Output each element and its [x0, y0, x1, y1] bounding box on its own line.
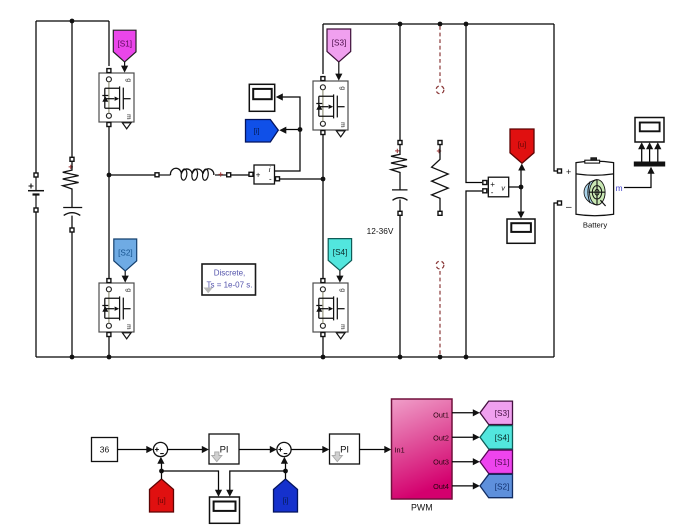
wire PWM Out3 to goto S1: [452, 461, 474, 463]
node junction bottom rail Q4: [321, 355, 326, 360]
sum block Sum1: [153, 442, 167, 456]
goto tag S3: [327, 29, 351, 81]
node junction i feedback: [283, 469, 288, 474]
DC voltage source V1: [28, 173, 44, 212]
wire bus riser 2: [649, 149, 651, 162]
PI controller PI1: [209, 434, 239, 464]
constant block 36: [92, 438, 118, 462]
resistor R load (disconnected): [432, 141, 449, 216]
wire PWM Out1 to goto S3: [452, 412, 474, 414]
svg-text:Out4: Out4: [433, 482, 449, 491]
wire dashed unconnected top: [436, 26, 444, 94]
svg-text:PI: PI: [340, 444, 349, 455]
wire Q3 source to Q4 drain: [322, 135, 324, 279]
node junction right bridge midpoint: [321, 177, 326, 182]
wire left rail down to DC source +: [35, 21, 37, 173]
wire from-i to sum2: [285, 464, 287, 480]
wire RC branch top: [71, 21, 73, 157]
current measurement I1: [249, 165, 280, 184]
node junction rail R load dashed: [438, 22, 443, 27]
wire battery minus to bottom rail: [554, 203, 557, 357]
arrow into goto i: [279, 127, 286, 134]
scope Scope2 (output voltage): [507, 219, 535, 243]
arrow into goto u: [518, 164, 525, 171]
wire bus riser 1: [641, 149, 643, 162]
node junction bottom rail RC: [70, 355, 75, 360]
wire i feedback to scope4: [230, 471, 286, 491]
node junction v signal: [519, 185, 524, 190]
wire bridge midpoint to inductor: [109, 174, 155, 176]
wire current sensor minus to right bridge: [280, 178, 323, 180]
svg-text:–: –: [566, 202, 572, 213]
wire 36 to sum1: [118, 449, 148, 451]
wire battery m output signal: [624, 174, 651, 188]
series RC branch RC2: [391, 141, 408, 216]
wire voltmeter output signal: [509, 170, 521, 213]
scope Scope4 (control signals): [210, 497, 240, 523]
goto tag S1 bottom: [480, 450, 513, 473]
wire dashed unconnected bottom: [436, 261, 444, 355]
svg-text:Out2: Out2: [433, 434, 449, 443]
svg-text:+: +: [566, 167, 571, 177]
wire bottom rail: [36, 356, 554, 358]
svg-text:PWM: PWM: [411, 503, 433, 513]
bus selector bar: [634, 162, 665, 167]
scope Scope3 (battery signals): [635, 118, 664, 143]
MOSFET Q1: [99, 69, 134, 129]
arrow into bus selector: [647, 167, 654, 174]
wire current sensor output signal: [275, 97, 301, 171]
PI controller PI2: [330, 434, 360, 464]
wire Q2 source to bottom rail: [108, 337, 110, 357]
goto tag S4 bottom: [480, 426, 513, 449]
wire PI1 to sum2: [239, 449, 271, 451]
node junction bottom rail RC2: [398, 355, 403, 360]
svg-text:[S3]: [S3]: [332, 38, 347, 47]
goto tag S3 bottom: [480, 401, 513, 424]
MOSFET Q4: [313, 279, 348, 339]
svg-text:[i]: [i]: [254, 127, 260, 136]
wire sum2 to PI2: [291, 449, 323, 451]
svg-text:12-36V: 12-36V: [367, 226, 394, 236]
from tag i: [274, 479, 298, 512]
wire RC2 branch to bottom rail: [399, 216, 401, 357]
svg-text:In1: In1: [395, 445, 405, 454]
wire rail to RC2 branch: [399, 24, 401, 140]
subsystem PWM: [392, 399, 453, 513]
svg-text:[u]: [u]: [518, 140, 526, 149]
node junction bottom rail dashed: [438, 355, 443, 360]
svg-text:[u]: [u]: [157, 496, 165, 505]
wire inductor to current sensor: [231, 174, 249, 176]
goto tag S2: [114, 239, 137, 283]
wire u feedback to scope4: [162, 471, 219, 491]
goto tag u: [510, 129, 534, 163]
wire from-u to sum1: [161, 464, 163, 480]
node junction rail voltmeter tap: [464, 22, 469, 27]
resistor-capacitor snubber branch RC1: [63, 157, 83, 232]
wire top-right rail: [323, 23, 554, 25]
svg-text:[S2]: [S2]: [495, 482, 510, 491]
arrow into scope2: [517, 212, 524, 219]
svg-text:Ts = 1e-07 s.: Ts = 1e-07 s.: [206, 281, 252, 290]
arrow into scope1: [276, 93, 283, 100]
from tag u: [150, 479, 174, 512]
goto tag i: [246, 120, 279, 143]
svg-text:[i]: [i]: [283, 496, 289, 505]
arrows into scope3: [638, 142, 645, 149]
wire PI2 to PWM: [360, 449, 386, 451]
svg-text:[S1]: [S1]: [118, 40, 133, 49]
svg-text:+: +: [256, 170, 261, 179]
node junction bottom rail Q2: [107, 355, 112, 360]
svg-text:[S4]: [S4]: [333, 248, 348, 257]
svg-text:[S4]: [S4]: [495, 434, 510, 443]
node junction left bridge midpoint: [107, 173, 112, 178]
node junction rail RC2: [398, 22, 403, 27]
inductor L1: [155, 168, 231, 180]
voltage measurement V2: [483, 177, 509, 197]
svg-text:[S2]: [S2]: [118, 248, 133, 257]
svg-text:m: m: [616, 183, 623, 193]
wire Q4 source to bottom rail: [322, 337, 324, 357]
svg-text:[S1]: [S1]: [495, 458, 510, 467]
wire top-left rail: [36, 20, 109, 22]
MOSFET Q2: [99, 279, 134, 339]
wire DC source - to bottom rail: [35, 212, 37, 357]
battery B1: [558, 158, 614, 230]
svg-text:Out3: Out3: [433, 458, 449, 467]
svg-text:Discrete,: Discrete,: [214, 269, 246, 278]
wire sum1 to PI1: [168, 449, 203, 451]
node junction bottom rail voltmeter: [464, 355, 469, 360]
svg-text:PI: PI: [220, 444, 229, 455]
wire rail to Q1 drain: [108, 21, 110, 66]
node junction u feedback: [159, 469, 164, 474]
wire PWM Out4 to goto S2: [452, 485, 474, 487]
goto tag S1: [113, 30, 136, 72]
wire Q1 source to Q2 drain: [108, 127, 110, 279]
wire RC branch bottom: [71, 232, 73, 357]
powergui block: [202, 264, 256, 295]
node junction top rail RC: [70, 19, 75, 24]
wire rail to Q3 drain: [322, 24, 324, 74]
goto tag S2 bottom: [480, 474, 513, 497]
svg-text:Battery: Battery: [583, 221, 608, 230]
wire output node to voltmeter plus: [466, 24, 482, 183]
svg-text:36: 36: [100, 445, 110, 455]
wire PWM Out2 to goto S4: [452, 436, 474, 438]
scope Scope1 (inductor current): [249, 84, 274, 111]
svg-text:Out1: Out1: [433, 411, 449, 420]
svg-text:[S3]: [S3]: [495, 409, 510, 418]
svg-text:-: -: [491, 188, 494, 197]
MOSFET Q3: [313, 77, 348, 137]
svg-text:-: -: [269, 174, 272, 183]
node junction i signal: [298, 127, 303, 132]
sum block Sum2: [277, 442, 291, 456]
wire output node to battery plus: [554, 24, 557, 171]
wire voltmeter minus to bottom rail: [466, 191, 482, 357]
goto tag S4: [328, 239, 351, 283]
wire bus riser 3: [657, 149, 659, 162]
